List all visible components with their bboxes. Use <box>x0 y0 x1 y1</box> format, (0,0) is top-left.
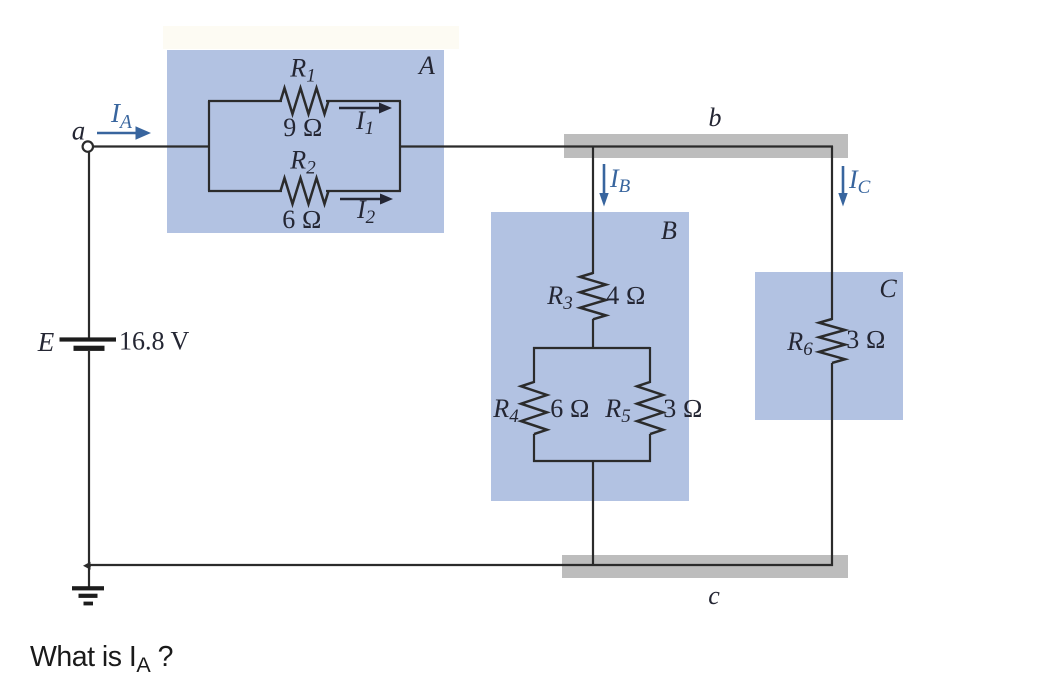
resistor R6 value 3 ohm <box>846 325 885 354</box>
resistor R1 label <box>289 54 315 87</box>
svg-text:3 Ω: 3 Ω <box>663 394 702 423</box>
wire block C down to node c <box>831 363 833 566</box>
wire R3 to parallel section <box>592 319 594 349</box>
current arrow IC <box>838 166 847 207</box>
wire bottom return <box>88 564 833 566</box>
wire battery to bottom <box>88 351 90 566</box>
resistor R1 <box>281 88 329 114</box>
resistor R4 <box>521 382 547 434</box>
resistor R3 <box>580 273 606 319</box>
resistor R4 value 6 ohm <box>550 394 589 423</box>
question text <box>30 641 173 677</box>
block C highlight <box>755 272 903 420</box>
wire parallel left rail lower <box>533 434 535 462</box>
resistor R2 <box>281 178 329 204</box>
current arrow I2 <box>340 194 393 205</box>
ground bar 3 <box>84 602 94 606</box>
wire parallel section down to node c <box>592 461 594 566</box>
battery E label <box>37 327 55 357</box>
current label IC <box>848 165 871 198</box>
current label IA <box>110 98 132 133</box>
svg-text:B: B <box>661 216 677 245</box>
resistor R3 label <box>546 281 572 314</box>
resistor R2 value 6 ohm <box>282 205 321 234</box>
resistor R5 <box>637 382 663 434</box>
wire bottom branch left <box>208 190 282 192</box>
wire parallel right rail upper <box>649 347 651 383</box>
wire node b corner down to block C <box>831 146 833 320</box>
wire parallel bottom bar <box>533 460 651 462</box>
battery E positive plate <box>60 337 117 341</box>
svg-text:C: C <box>879 274 897 303</box>
wire right rail of parallel R1 R2 <box>399 101 401 191</box>
wire top branch left <box>208 100 282 102</box>
svg-text:6 Ω: 6 Ω <box>282 205 321 234</box>
wire left rail of parallel R1 R2 <box>208 101 210 191</box>
ground stem <box>88 565 90 587</box>
block A highlight <box>167 50 444 233</box>
node c label <box>708 581 720 610</box>
svg-text:16.8 V: 16.8 V <box>119 327 190 356</box>
wire top branch right <box>326 100 401 102</box>
block A label <box>417 51 435 80</box>
node b label <box>709 103 722 132</box>
resistor R1 value 9 ohm <box>283 113 322 142</box>
wire node b down to R3 <box>592 146 594 274</box>
resistor R5 label <box>604 394 630 427</box>
junction dot at ground <box>83 562 91 570</box>
resistor R3 value 4 ohm <box>606 281 645 310</box>
node c bus bar <box>562 555 848 578</box>
battery E negative plate <box>74 346 105 351</box>
current arrow I1 <box>339 103 392 114</box>
current label IB <box>609 164 631 197</box>
wire parallel right rail lower <box>649 434 651 462</box>
svg-text:What is IA ?: What is IA ? <box>30 641 173 677</box>
block B highlight <box>491 212 689 501</box>
resistor R6 label <box>786 327 813 360</box>
svg-text:A: A <box>417 51 435 80</box>
wire parallel left rail upper <box>533 347 535 383</box>
wire block A to node b to block C corner <box>399 145 833 147</box>
node a label <box>72 116 86 146</box>
resistor R4 label <box>492 394 519 427</box>
battery E value 16.8 V <box>119 327 190 356</box>
svg-text:9 Ω: 9 Ω <box>283 113 322 142</box>
current label I1 <box>355 106 374 139</box>
resistor R6 <box>819 319 845 363</box>
block C label <box>879 274 897 303</box>
node a terminal <box>83 141 93 151</box>
wire bottom branch right <box>326 190 401 192</box>
faint scan artifact above block A <box>163 26 459 49</box>
wire parallel top bar <box>533 347 650 349</box>
wire node a to block A <box>94 145 209 147</box>
svg-text:a: a <box>72 116 86 146</box>
svg-text:E: E <box>37 327 55 357</box>
current arrow IB <box>599 164 608 207</box>
current label I2 <box>356 195 376 228</box>
wire left rail battery top <box>88 151 90 338</box>
svg-text:4 Ω: 4 Ω <box>606 281 645 310</box>
ground bar 1 <box>72 586 104 590</box>
block B label <box>661 216 677 245</box>
resistor R2 label <box>289 146 316 179</box>
resistor R5 value 3 ohm <box>663 394 702 423</box>
svg-text:c: c <box>708 581 720 610</box>
svg-text:b: b <box>709 103 722 132</box>
node b bus bar <box>564 134 848 158</box>
svg-text:3 Ω: 3 Ω <box>846 325 885 354</box>
ground bar 2 <box>79 594 98 598</box>
svg-text:6 Ω: 6 Ω <box>550 394 589 423</box>
current arrow IA <box>97 126 151 139</box>
